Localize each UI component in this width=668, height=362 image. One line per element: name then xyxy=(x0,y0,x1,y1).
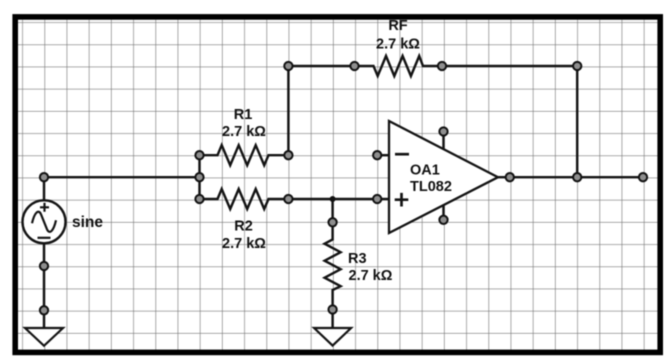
svg-text:2.7 kΩ: 2.7 kΩ xyxy=(222,236,266,252)
svg-text:OA1: OA1 xyxy=(410,163,440,179)
svg-text:2.7 kΩ: 2.7 kΩ xyxy=(376,37,420,53)
svg-text:sine: sine xyxy=(72,214,103,231)
svg-text:2.7 kΩ: 2.7 kΩ xyxy=(222,124,266,140)
svg-text:R1: R1 xyxy=(234,107,253,123)
svg-text:R2: R2 xyxy=(234,219,253,235)
svg-text:RF: RF xyxy=(388,18,407,34)
svg-text:2.7 kΩ: 2.7 kΩ xyxy=(349,268,393,284)
svg-text:TL082: TL082 xyxy=(410,179,452,195)
svg-text:R3: R3 xyxy=(348,251,367,267)
